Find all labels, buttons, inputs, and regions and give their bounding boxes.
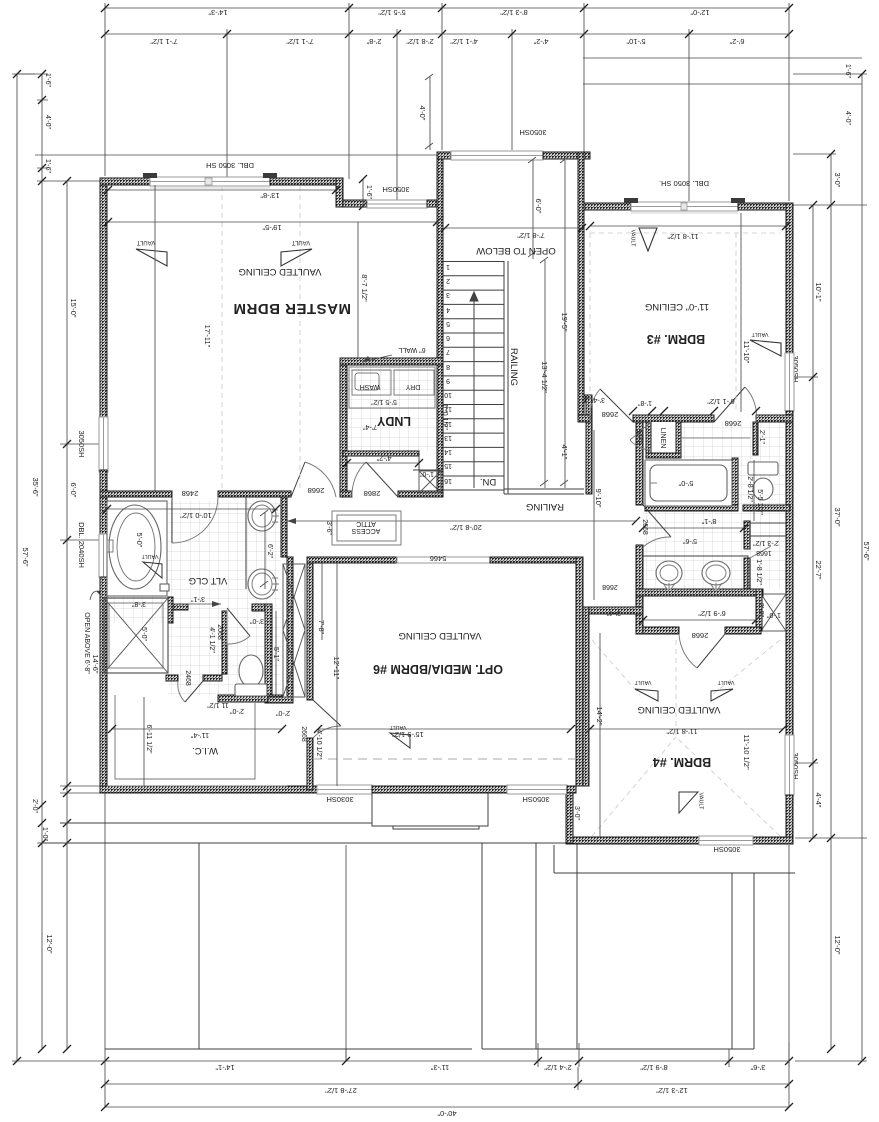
bdrm4 dim 6-9 1/2 [639, 609, 760, 624]
tub corner deck [160, 584, 169, 591]
svg-text:1'-8": 1'-8" [638, 399, 652, 406]
svg-text:VAULT: VAULT [751, 331, 769, 337]
svg-text:4'-1 1/2": 4'-1 1/2" [208, 627, 215, 653]
wall: WIC east [287, 557, 293, 703]
top dim row 2 line [101, 29, 793, 40]
top dim row 2 texts [150, 37, 745, 46]
master dim 19-5 [104, 218, 441, 232]
svg-text:6'-0": 6'-0" [69, 483, 78, 498]
window DBL.3050SH bdrm3 north [631, 202, 738, 211]
svg-text:3050SH: 3050SH [519, 128, 546, 137]
svg-text:13'-4 1/2": 13'-4 1/2" [540, 361, 549, 393]
bdrm3 dim 11-10 vertical [741, 213, 751, 412]
svg-text:14: 14 [444, 448, 452, 455]
window 3050SH in west wall [99, 417, 108, 472]
svg-text:19'-5": 19'-5" [262, 223, 281, 232]
svg-text:6'-0 1/2": 6'-0 1/2" [441, 404, 448, 430]
svg-text:1'-0": 1'-0" [767, 611, 781, 618]
svg-text:17'-11": 17'-11" [203, 325, 212, 348]
right top extension lines [583, 58, 862, 84]
svg-text:7'-1 1/2": 7'-1 1/2" [150, 37, 178, 46]
svg-text:3'-4": 3'-4" [607, 609, 621, 616]
svg-text:3: 3 [446, 291, 450, 298]
svg-text:OPT. MEDIA/BDRM #6: OPT. MEDIA/BDRM #6 [373, 662, 503, 676]
svg-text:11'-10 1/2": 11'-10 1/2" [742, 734, 751, 770]
svg-text:12'-11": 12'-11" [332, 657, 341, 680]
svg-text:VAULT: VAULT [717, 679, 735, 685]
wall: shaft east lower jog [584, 395, 592, 402]
svg-text:7'-4": 7'-4" [363, 423, 377, 430]
6in wall note [362, 346, 426, 362]
svg-text:5'-5 1/2": 5'-5 1/2" [756, 489, 763, 515]
svg-text:14'-6": 14'-6" [91, 654, 100, 673]
svg-text:DBL. 3050 SH: DBL. 3050 SH [206, 161, 254, 170]
wall: toilet compartment bath2 [744, 521, 750, 549]
vault tri bath vlt [141, 553, 162, 578]
window 3030SH south wall [317, 785, 372, 794]
svg-text:VAULT: VAULT [698, 793, 704, 811]
svg-text:10'-1": 10'-1" [814, 282, 823, 301]
left extension line y155 [17, 74, 437, 181]
svg-text:VAULTED CEILING: VAULTED CEILING [398, 630, 481, 641]
wall: LNDY south (vestibule north) [343, 451, 419, 456]
svg-text:RAILING: RAILING [526, 501, 564, 512]
svg-text:2668: 2668 [725, 419, 742, 428]
wall: media north east piece [490, 557, 580, 563]
svg-text:2068: 2068 [216, 624, 223, 640]
top dim row 1 texts [208, 8, 709, 17]
svg-text:2'-8": 2'-8" [366, 37, 381, 46]
svg-text:6'-1 1/2": 6'-1 1/2" [707, 397, 735, 406]
svg-text:5'-0": 5'-0" [678, 479, 693, 488]
wall: bath2 west [636, 422, 643, 505]
bump-out below south wall [372, 793, 488, 829]
wall: step piece to stairwell [427, 200, 437, 207]
open above label [83, 591, 102, 674]
svg-text:14'-3": 14'-3" [208, 8, 227, 17]
svg-text:DN.: DN. [480, 476, 496, 487]
svg-text:VAULTED CEILING: VAULTED CEILING [637, 704, 720, 715]
wall: LNDY north [340, 358, 443, 365]
WIC shelves [115, 695, 255, 779]
svg-text:8'-7 1/2": 8'-7 1/2" [360, 274, 369, 302]
svg-text:4'-0": 4'-0" [844, 111, 851, 125]
svg-text:1668: 1668 [635, 429, 642, 445]
svg-text:3'-0": 3'-0" [250, 617, 264, 624]
master dim 8-7 1/2 vertical [358, 222, 369, 358]
bath2 dim 8-1 [639, 517, 748, 532]
svg-text:2468: 2468 [184, 670, 191, 686]
wall: around hall closet [756, 589, 762, 631]
door 1668 toilet comp bath2 [750, 546, 771, 558]
bottom dim row B [101, 1067, 793, 1095]
wall: bdrm4 north left piece [643, 627, 679, 634]
wall: hall south wall [583, 607, 643, 614]
svg-text:5466: 5466 [430, 554, 447, 563]
wall: bdrm3 south piece3 [756, 415, 793, 422]
shaft dim 19-5 [560, 157, 569, 488]
bath dim 3-1 [173, 595, 221, 607]
right dim col 57-6 [793, 70, 871, 1065]
wall: east middle [786, 411, 793, 735]
svg-text:OPEN TO BELOW: OPEN TO BELOW [476, 245, 555, 256]
svg-text:2668: 2668 [641, 519, 648, 535]
door 2668 bdrm4 [679, 634, 725, 668]
svg-text:57'-6": 57'-6" [21, 547, 30, 566]
svg-text:3050SH: 3050SH [382, 185, 409, 194]
bdrm4 dim 14-2 vertical [595, 633, 604, 837]
svg-text:ACCESS: ACCESS [351, 527, 380, 534]
tub master oval [109, 505, 161, 589]
svg-text:20'-8 1/2": 20'-8 1/2" [450, 523, 482, 532]
vault tri master right [281, 239, 312, 266]
svg-text:40'-0": 40'-0" [437, 1109, 456, 1118]
left dim col 35'-6 [31, 70, 60, 1053]
vault tri bdrm3 upper [630, 228, 658, 251]
svg-text:5'-5 1/2": 5'-5 1/2" [371, 398, 397, 405]
bdrm3 dim 11-8 1/2 [586, 222, 790, 241]
svg-text:1'-8 1/2": 1'-8 1/2" [755, 559, 762, 585]
wall: east (right) bdrm3 [786, 203, 793, 353]
svg-text:VAULT: VAULT [634, 679, 652, 685]
wall: media west [307, 557, 313, 700]
master dim 13-8 [104, 186, 340, 200]
linen bdrm3: walls [646, 422, 651, 458]
wall: bdrm3 north west piece [584, 203, 631, 210]
wall: below tub bath2 [645, 505, 738, 511]
door 2668 media [313, 700, 341, 738]
svg-text:3'-6": 3'-6" [325, 521, 332, 535]
wall: master north left piece [100, 178, 150, 185]
wall: step horizontal to window [343, 200, 367, 207]
wall: master NE step vertical [336, 178, 343, 207]
door 2468 WIC arc [178, 681, 203, 702]
svg-text:1'-6": 1'-6" [44, 73, 51, 87]
master toilet [235, 655, 267, 696]
door 2068 WC [227, 608, 250, 644]
svg-text:3030SH: 3030SH [326, 795, 353, 804]
attic access box [332, 511, 401, 545]
shaft dim 13-4 1/2 [540, 257, 549, 488]
svg-text:VAULT: VAULT [141, 553, 159, 559]
svg-text:8: 8 [446, 363, 450, 370]
wall: WIC north piece right of WC [268, 697, 293, 703]
wall: bath/WIC stubs + door 2468 [166, 675, 178, 681]
left dim col outer 57'-6 [12, 70, 110, 1065]
svg-text:2'-0": 2'-0" [31, 799, 38, 813]
porch verticals [199, 843, 754, 1049]
closet X box LNDY [419, 471, 441, 493]
svg-text:2868: 2868 [364, 489, 381, 498]
porch edge bottom [105, 1048, 754, 1050]
svg-text:6'-2": 6'-2" [729, 37, 744, 46]
media dim 7-8 vertical [317, 563, 324, 640]
wall: vestibule south stubs + door 2868 opening [340, 491, 352, 497]
svg-text:11 1/2": 11 1/2" [207, 701, 229, 708]
svg-text:19'-5": 19'-5" [560, 312, 569, 331]
bath dim 10-0 1/2 [103, 505, 280, 520]
master sink 2 [248, 569, 276, 599]
roof line y823 [60, 822, 372, 824]
svg-text:5'-6": 5'-6" [683, 537, 697, 544]
wall: stairwell north [437, 152, 451, 159]
lndy dim 4-2 [343, 454, 423, 467]
svg-text:8'-1": 8'-1" [701, 517, 716, 526]
svg-text:12'-0": 12'-0" [833, 935, 842, 954]
svg-text:2668: 2668 [602, 583, 618, 590]
bath2 tub [645, 460, 732, 506]
svg-text:1'-6": 1'-6" [365, 185, 372, 199]
right dim col 10-1/22-7/4-4 [795, 201, 823, 842]
wall: south wall center piece [372, 786, 507, 793]
svg-text:7'-1 1/2": 7'-1 1/2" [286, 37, 314, 46]
svg-text:15'-0": 15'-0" [69, 298, 78, 317]
top dim row 1 line [101, 3, 793, 14]
master dim 17-11 vertical [155, 185, 212, 491]
dim 4-0 stairwell left [418, 74, 433, 150]
svg-text:W.I.C.: W.I.C. [192, 745, 218, 756]
svg-text:9: 9 [446, 377, 450, 384]
svg-text:2668: 2668 [300, 726, 307, 742]
svg-text:1'-0": 1'-0" [420, 470, 434, 477]
bdrm4 dim 11-8 1/2 [586, 725, 787, 736]
svg-text:4'-2": 4'-2" [376, 454, 391, 463]
svg-text:3'-0": 3'-0" [833, 173, 842, 188]
svg-text:9'-10": 9'-10" [594, 488, 603, 507]
door 2668 bath2 entry [643, 505, 671, 547]
extension line x346 bottom [345, 845, 347, 1061]
wall: media east / bdrm4 west [576, 557, 583, 786]
svg-text:35'-6": 35'-6" [31, 477, 40, 496]
svg-text:11'-8 1/2": 11'-8 1/2" [666, 727, 697, 736]
svg-text:LNDY: LNDY [376, 414, 411, 428]
svg-text:1: 1 [446, 263, 450, 270]
left dim col 15-0/6-0/14-6 [60, 177, 100, 1053]
svg-text:6'-0": 6'-0" [534, 199, 543, 214]
svg-text:15: 15 [444, 462, 452, 469]
svg-text:8'-3 1/2": 8'-3 1/2" [500, 8, 528, 17]
WIC dim 11-4 [108, 725, 286, 740]
svg-text:13'-8": 13'-8" [260, 191, 279, 200]
svg-text:14'-1": 14'-1" [215, 1063, 234, 1072]
svg-text:4'-2": 4'-2" [533, 37, 548, 46]
vault tri bdrm3 lower [750, 331, 781, 356]
dim 9-10 hall [594, 430, 603, 600]
svg-text:2468: 2468 [182, 489, 199, 498]
svg-text:2'-4 1/2": 2'-4 1/2" [544, 1063, 572, 1072]
svg-text:2'-8 1/2": 2'-8 1/2" [406, 37, 434, 46]
wall: east lower corner [786, 795, 793, 844]
svg-text:11'-10": 11'-10" [742, 341, 751, 364]
svg-text:BDRM. #3: BDRM. #3 [647, 332, 705, 346]
vault tri master left [136, 239, 167, 266]
svg-text:5'-0": 5'-0" [140, 627, 147, 641]
bath2 dim 5-5 1/2 vertical [754, 460, 763, 521]
svg-text:3'-4": 3'-4" [591, 396, 605, 403]
svg-text:3050SH: 3050SH [522, 795, 549, 804]
lower roof line right [554, 845, 795, 873]
svg-text:2: 2 [446, 277, 450, 284]
wall: bdrm4 north right piece [725, 627, 761, 634]
window 3050SH stairwell north [451, 151, 543, 160]
svg-text:4'-4": 4'-4" [814, 793, 823, 808]
bath2 sink1 [656, 561, 682, 585]
svg-text:7'-8 1/2": 7'-8 1/2" [517, 231, 545, 240]
window 3050SH east wall bdrm4 [785, 735, 794, 795]
svg-text:2'-3 1/2": 2'-3 1/2" [753, 539, 779, 546]
dim 2-1 linen [757, 424, 765, 453]
svg-text:3'-6": 3'-6" [750, 1063, 765, 1072]
wall: master north right piece [270, 178, 343, 185]
closet nook wall [753, 422, 758, 455]
stair up arrow [470, 292, 478, 488]
tile floor bath2 [643, 422, 786, 589]
roof line y843 [42, 842, 566, 844]
stair numbers [444, 263, 452, 484]
window 3050SH south wall [507, 785, 567, 794]
cased opening 5466 [397, 557, 490, 563]
bath2 sink2 [702, 561, 730, 585]
wall: bath/WC east wall lower [265, 604, 272, 703]
svg-text:3050SH: 3050SH [713, 845, 740, 854]
svg-text:4'-1": 4'-1" [560, 445, 569, 460]
svg-text:4: 4 [446, 306, 450, 313]
svg-text:3'-1": 3'-1" [191, 595, 205, 602]
wall: master south between doors [218, 491, 291, 497]
wall: shower east [168, 597, 173, 623]
vault tri bdrm4 right [711, 679, 734, 701]
vault tri bdrm4 left [634, 679, 658, 701]
svg-text:6" WALL: 6" WALL [398, 346, 425, 353]
window 3050SH bdrm4 south [699, 836, 753, 845]
svg-text:VAULT: VAULT [630, 230, 636, 248]
door 2668 bdrm3 right [714, 387, 756, 422]
svg-text:6'-11 1/2": 6'-11 1/2" [145, 725, 152, 755]
tile floor master bath [107, 501, 281, 623]
svg-text:4'-1 1/2": 4'-1 1/2" [450, 37, 478, 46]
svg-text:11'-4": 11'-4" [190, 731, 209, 740]
tall linen X closet master [283, 564, 305, 697]
hall dim 20-8 1/2 [287, 517, 640, 532]
door 1668 linen bdrm3 [630, 422, 651, 450]
wall: bdrm4 south [566, 837, 793, 844]
svg-text:WASH: WASH [360, 383, 381, 390]
svg-text:5'-10": 5'-10" [626, 37, 645, 46]
svg-text:OPEN ABOVE 6'-8": OPEN ABOVE 6'-8" [83, 612, 90, 674]
tile floor laundry [347, 365, 437, 451]
svg-text:1'-6": 1'-6" [844, 64, 851, 78]
linen bdrm3 interior [651, 422, 676, 453]
svg-text:2'-0": 2'-0" [276, 709, 290, 716]
wall: sinks south wall bath2 [636, 589, 763, 596]
wall: south wall east piece [567, 786, 576, 793]
svg-text:12'-3 1/2": 12'-3 1/2" [656, 1086, 688, 1095]
stair treads [443, 262, 504, 491]
svg-text:2'-8 1/2": 2'-8 1/2" [746, 476, 753, 502]
svg-text:11'-0" CEILING: 11'-0" CEILING [645, 301, 709, 312]
door 2668 hall->bdrm3 left [590, 389, 633, 422]
svg-text:5: 5 [446, 320, 450, 327]
open shaft railing bottom [504, 489, 584, 494]
svg-text:DRY: DRY [405, 383, 420, 390]
svg-text:15'-9 1/2": 15'-9 1/2" [392, 730, 424, 739]
svg-text:1'-6": 1'-6" [44, 159, 51, 173]
vault tri media [389, 724, 410, 748]
wall: bdrm4 west [583, 607, 589, 786]
svg-text:4'-0": 4'-0" [44, 115, 51, 129]
wall: below toilet bath2 [743, 505, 790, 511]
window 3050SH step wall [367, 200, 427, 208]
svg-text:10: 10 [444, 391, 452, 398]
svg-text:1'-0": 1'-0" [41, 827, 48, 841]
svg-text:VAULTED CEILING: VAULTED CEILING [238, 266, 321, 277]
svg-text:5'-0": 5'-0" [135, 533, 144, 548]
stair rail line [504, 261, 508, 494]
svg-text:1668: 1668 [756, 549, 772, 556]
wall: bdrm4 SW step vertical [566, 786, 573, 843]
svg-text:2'-0": 2'-0" [757, 603, 764, 617]
shaft dim 7-8 1/2 [441, 224, 586, 240]
wall: west lower to WIC bottom [100, 577, 107, 793]
svg-text:12'-0": 12'-0" [690, 8, 709, 17]
media dim 15-9 1/2 [314, 725, 575, 739]
right dim col 37-0 [793, 64, 867, 1053]
wall: south main (media/WIC bottom) left piece [100, 786, 317, 793]
bdrm4 vault dashes [592, 640, 780, 836]
svg-text:2'-1": 2'-1" [758, 430, 765, 444]
svg-text:VLT CLG: VLT CLG [189, 575, 228, 586]
wall: bdrm3 south piece2 [633, 415, 714, 422]
door 2668 master entry [291, 462, 336, 497]
closet by LNDY: walls [413, 456, 443, 470]
svg-text:6: 6 [446, 334, 450, 341]
svg-text:6'-9 1/2": 6'-9 1/2" [698, 609, 726, 618]
media dim 12-11 vertical [332, 563, 341, 786]
wall: bdrm3 north east piece [738, 203, 793, 210]
wall: master west (left) upper [100, 178, 107, 419]
bath2 sinks counter [643, 556, 748, 589]
wall: sink back wall master bath [281, 497, 287, 557]
svg-text:3050SH: 3050SH [77, 430, 86, 457]
svg-text:ATTIC: ATTIC [356, 520, 376, 527]
shower box with X [104, 598, 168, 673]
hall closet X bath2 [761, 594, 786, 631]
WIC dim 6-11 1/2 vertical [144, 697, 152, 786]
svg-text:13: 13 [444, 434, 452, 441]
bottom dim row A [101, 1043, 793, 1072]
svg-text:16: 16 [444, 477, 452, 484]
svg-text:10'-0 1/2": 10'-0 1/2" [180, 511, 212, 520]
wall: WC west [222, 611, 227, 674]
wall: tub/toilet divider bath2 [732, 458, 738, 508]
closet nook shelf [681, 437, 750, 439]
tub master platform [107, 501, 167, 596]
window DBL.3050SH master north [150, 177, 270, 186]
svg-text:11'-3": 11'-3" [430, 1063, 449, 1072]
bath2 toilet [748, 462, 778, 500]
bdrm3 ceiling dashed [590, 233, 780, 412]
svg-text:5'-1": 5'-1" [272, 647, 279, 661]
svg-text:3'-8": 3'-8" [132, 600, 146, 607]
wall: WC north wall + door opening [168, 604, 188, 610]
bottom dim row C [101, 793, 793, 1118]
window ears master north [143, 173, 277, 178]
wall: media north west piece [307, 557, 397, 563]
window DBL.2040SH in west wall [99, 534, 108, 577]
svg-text:2668: 2668 [308, 486, 325, 495]
door 2468 master->bath [172, 497, 218, 543]
tub faucet [107, 540, 113, 552]
